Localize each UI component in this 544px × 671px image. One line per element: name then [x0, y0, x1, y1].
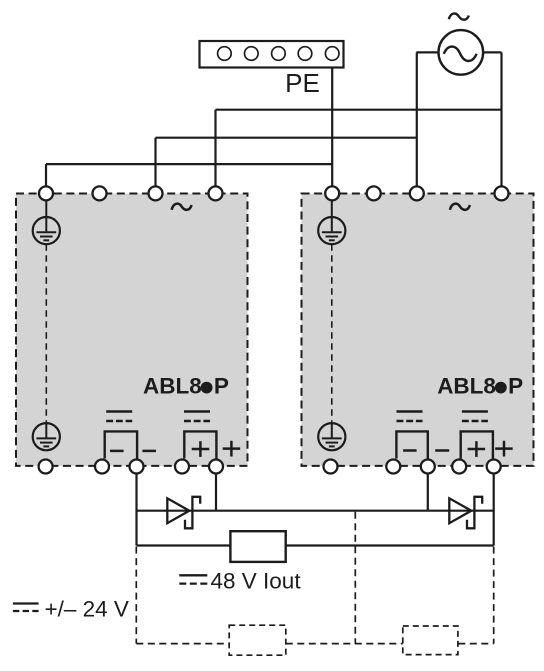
terminal left PSU bottom earth	[39, 460, 53, 474]
terminal left PSU top L	[149, 186, 163, 200]
terminal right PSU top unused	[367, 186, 381, 200]
dashed wire 24V midpoint tap	[354, 512, 356, 644]
wire vertical stub to left PSU terminal N	[214, 110, 216, 193]
plus sign inner right PSU	[468, 441, 486, 457]
terminal left PSU bottom minus2	[130, 460, 144, 474]
DC symbol left PSU plus	[184, 412, 210, 422]
wire PE vertical from PE bar to right PSU earth terminal	[331, 60, 333, 193]
terminal right PSU top L	[410, 186, 424, 200]
terminal right PSU bottom plus1	[452, 460, 466, 474]
plus sign outer left PSU	[223, 441, 241, 457]
terminal right PSU top earth	[325, 186, 339, 200]
dashed load box 2	[403, 626, 458, 655]
wire horizontal PE feed to left PSU	[46, 163, 332, 165]
terminal right PSU bottom minus2	[421, 460, 435, 474]
PE bus hole 1	[218, 47, 232, 61]
terminal left PSU top earth	[39, 186, 53, 200]
earth symbol left PSU top	[33, 201, 60, 245]
PE bus hole 5	[325, 47, 339, 61]
tilde marking on left PSU	[172, 204, 192, 210]
right PSU box	[302, 194, 534, 466]
terminal right PSU bottom earth	[324, 460, 338, 474]
label PE	[285, 68, 320, 98]
output bracket left PSU plus	[184, 431, 216, 458]
tilde marking on right PSU	[450, 204, 470, 210]
dashed wire 0V down	[135, 547, 137, 644]
svg-text:P: P	[508, 373, 523, 398]
terminal left PSU bottom minus1	[95, 460, 109, 474]
plus sign inner left PSU	[192, 441, 210, 457]
wire right PSU minus output down	[427, 467, 429, 511]
wire series link bus	[137, 510, 494, 512]
DC symbol left PSU minus	[106, 412, 132, 422]
output bracket left PSU minus	[105, 431, 137, 458]
terminal left PSU top N	[209, 186, 223, 200]
svg-text:ABL8: ABL8	[437, 373, 496, 398]
terminal right PSU top N	[495, 186, 509, 200]
wire AC source left lead	[416, 51, 440, 53]
terminal right PSU bottom minus1	[386, 460, 400, 474]
DC symbol right PSU plus	[462, 412, 488, 422]
left PSU box	[16, 194, 248, 466]
DC symbol right PSU minus	[397, 412, 423, 422]
dashed earth line right PSU	[331, 244, 333, 423]
minus sign outer left PSU	[142, 450, 156, 453]
dashed wire 48V down	[493, 547, 495, 644]
PE bus hole 2	[245, 47, 259, 61]
svg-text:PE: PE	[285, 68, 320, 98]
svg-text:48 V Iout: 48 V Iout	[211, 568, 302, 593]
wire horizontal N feed to left PSU	[216, 109, 502, 111]
wire AC source right lead	[482, 51, 502, 53]
earth symbol right PSU bottom	[318, 423, 345, 450]
output bracket right PSU minus	[396, 431, 427, 458]
terminal left PSU bottom plus1	[175, 460, 189, 474]
label 48 V Iout	[211, 568, 302, 593]
wire 48V load bus	[137, 544, 494, 546]
earth symbol left PSU bottom	[33, 423, 60, 450]
load resistor	[230, 531, 285, 562]
PE bus hole 3	[272, 47, 286, 61]
dashed earth line left PSU	[45, 244, 47, 423]
label +/- 24 V	[45, 597, 129, 622]
terminal right PSU bottom plus2	[487, 460, 501, 474]
label ABL8.P left	[143, 373, 229, 398]
diode D1	[167, 497, 200, 529]
tilde above AC source	[449, 14, 469, 20]
wire from AC left terminal down to right PSU terminal L	[416, 52, 418, 193]
wire horizontal L feed to left PSU	[156, 137, 417, 139]
PE bus hole 4	[298, 47, 312, 61]
wire vertical stub to left PSU earth terminal	[45, 164, 47, 193]
svg-text:P: P	[214, 373, 229, 398]
PE bus bar	[200, 41, 344, 68]
svg-text:ABL8: ABL8	[143, 373, 202, 398]
wire vertical stub to left PSU terminal L	[154, 138, 156, 193]
earth symbol right PSU top	[318, 201, 345, 245]
DC symbol 48V output	[179, 575, 207, 583]
terminal left PSU top unused	[93, 186, 107, 200]
svg-text:+/– 24 V: +/– 24 V	[45, 597, 129, 622]
dashed wire bottom bus	[136, 643, 493, 645]
DC symbol 24V option	[13, 604, 39, 612]
dashed load box 1	[229, 625, 286, 655]
minus sign outer right PSU	[435, 449, 449, 452]
wire left PSU minus output down	[135, 467, 137, 546]
output bracket right PSU plus	[461, 431, 493, 458]
wire right PSU plus output down	[493, 467, 495, 546]
wire from AC right terminal down to right PSU terminal N	[500, 52, 502, 193]
diode D2	[449, 497, 482, 529]
label ABL8.P right	[437, 373, 523, 398]
terminal left PSU bottom plus2	[209, 460, 223, 474]
minus sign inner right PSU	[403, 449, 417, 452]
minus sign inner left PSU	[110, 450, 124, 453]
AC source	[439, 30, 484, 75]
plus sign outer right PSU	[495, 441, 513, 457]
wire left PSU plus output down	[215, 467, 217, 511]
